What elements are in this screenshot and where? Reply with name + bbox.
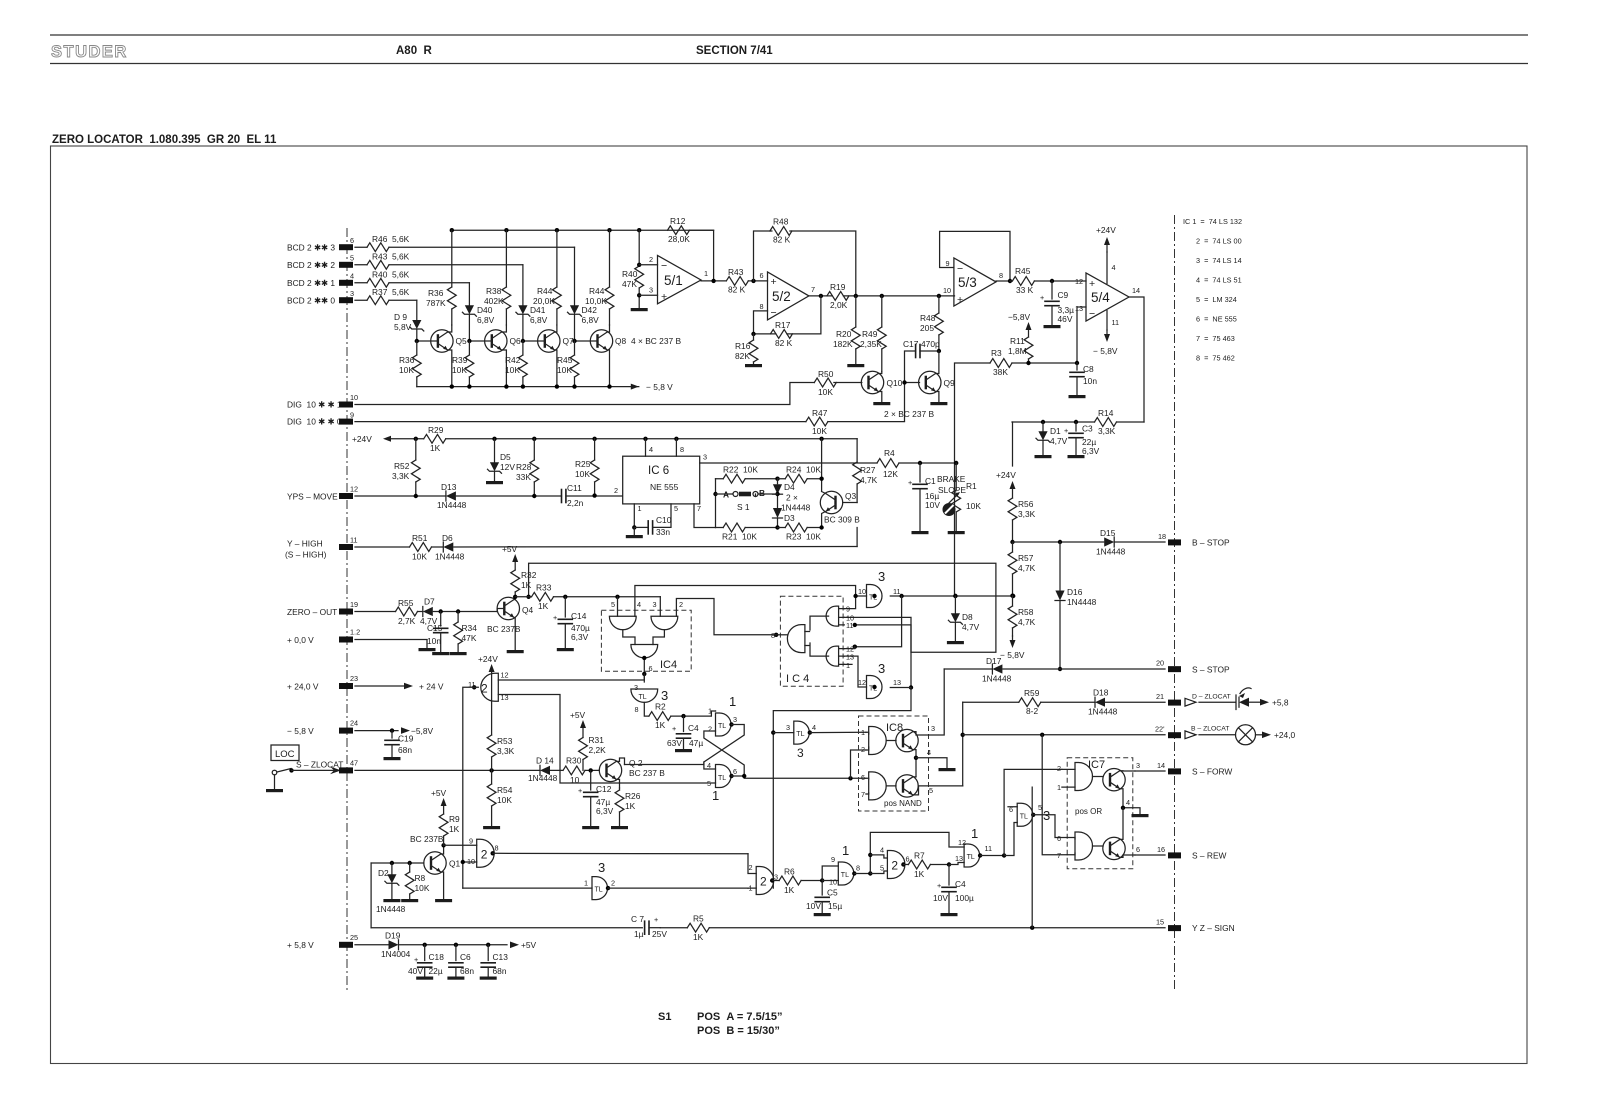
svg-text:TL: TL [967, 854, 975, 861]
svg-text:POS A = 7.5/15”: POS A = 7.5/15” [697, 1011, 783, 1023]
svg-text:+24V: +24V [1096, 225, 1116, 235]
svg-text:R54: R54 [497, 785, 513, 795]
svg-text:TL: TL [718, 775, 726, 782]
resistor R44 20,0K (collector Q7) [556, 230, 558, 325]
wire [355, 246, 575, 248]
svg-text:D5: D5 [500, 452, 511, 462]
svg-text:R16: R16 [735, 341, 751, 351]
svg-text:IC 6: IC 6 [648, 465, 669, 477]
resistor R8 10K [409, 863, 411, 899]
resistor R25 10K [594, 439, 596, 496]
gate IC8 H2 [869, 772, 887, 800]
svg-text:+24V: +24V [996, 470, 1016, 480]
ground [631, 308, 648, 311]
svg-text:10K: 10K [415, 883, 430, 893]
svg-text:LOC: LOC [275, 749, 295, 760]
svg-text:+: + [672, 724, 676, 733]
gate IC4 OR (left facing) [787, 625, 805, 653]
svg-text:4: 4 [1126, 798, 1130, 807]
svg-text:12: 12 [501, 671, 509, 680]
svg-text:1K: 1K [914, 869, 925, 879]
svg-text:S1: S1 [658, 1011, 671, 1023]
svg-text:2: 2 [481, 681, 488, 695]
svg-text:C14: C14 [571, 611, 587, 621]
zener D2 1N4448 [391, 863, 393, 874]
svg-text:2: 2 [1057, 764, 1061, 773]
svg-text:3: 3 [878, 661, 885, 676]
transistor T1 [896, 729, 918, 751]
svg-text:+5V: +5V [502, 544, 518, 554]
svg-text:STUDER: STUDER [51, 43, 128, 61]
resistor R21 10K [716, 527, 778, 529]
svg-text:15µ: 15µ [828, 901, 842, 911]
op-amp 5/2 [768, 272, 809, 320]
svg-text:R28: R28 [516, 462, 532, 472]
svg-text:3: 3 [878, 569, 885, 584]
svg-text:R29: R29 [428, 425, 444, 435]
capacitor C1 16u 10V [919, 463, 921, 482]
svg-text:8: 8 [856, 864, 860, 873]
svg-text:68n: 68n [460, 966, 474, 976]
header rule top [50, 34, 1528, 36]
svg-text:1K: 1K [430, 443, 441, 453]
svg-text:8: 8 [760, 302, 764, 311]
svg-text:2,35K: 2,35K [860, 339, 882, 349]
capacitor C17 470p [937, 349, 941, 353]
svg-text:R37 5,6K: R37 5,6K [372, 287, 410, 297]
svg-text:2 × BC 237 B: 2 × BC 237 B [884, 409, 934, 419]
resistor R19 2,0K [827, 292, 849, 301]
svg-text:C5: C5 [827, 888, 838, 898]
transistor K1 [1103, 769, 1125, 791]
svg-text:1N4448: 1N4448 [376, 904, 406, 914]
resistor R20 182K [855, 296, 857, 364]
svg-text:R40: R40 [622, 269, 638, 279]
svg-text:3: 3 [634, 683, 638, 692]
svg-text:D13: D13 [441, 482, 457, 492]
wire G_a inputs [748, 854, 756, 888]
op-amp 5/1 [658, 256, 702, 304]
svg-text:5 = LM 324: 5 = LM 324 [1196, 295, 1237, 304]
svg-text:1: 1 [638, 504, 642, 513]
transistor Q10 [861, 371, 883, 393]
svg-text:R20: R20 [836, 329, 852, 339]
svg-text:19: 19 [350, 600, 358, 609]
svg-text:C 7: C 7 [631, 914, 644, 924]
capacitor C18 22u 40V [424, 945, 426, 961]
diode D6 1N4448 [443, 542, 453, 552]
svg-text:11: 11 [350, 536, 358, 545]
svg-text:1K: 1K [655, 720, 666, 730]
svg-text:1N4448: 1N4448 [982, 674, 1012, 684]
zener D8 4,7V [953, 594, 957, 598]
svg-text:470p: 470p [921, 339, 940, 349]
svg-text:3: 3 [786, 723, 790, 732]
pin 1 stub and ground [633, 504, 635, 528]
svg-text:TL: TL [595, 887, 603, 894]
svg-text:10K: 10K [452, 365, 467, 375]
svg-text:1N4448: 1N4448 [528, 773, 558, 783]
svg-text:3,3K: 3,3K [392, 471, 410, 481]
svg-text:D15: D15 [1100, 528, 1116, 538]
op-amp 5/4 [1086, 273, 1129, 321]
svg-text:46V: 46V [1058, 314, 1073, 324]
capacitor C3 22u 6,3V [1075, 422, 1077, 431]
ground [1035, 455, 1052, 458]
gate TL3c (IC3) [592, 877, 608, 900]
svg-text:R36: R36 [399, 355, 415, 365]
svg-text:47µ: 47µ [689, 738, 703, 748]
wire S-REW row [1135, 854, 1165, 856]
svg-text:+: + [578, 786, 582, 795]
svg-text:25: 25 [350, 933, 358, 942]
pad 15 YZ-SIGN [1168, 925, 1181, 931]
gate IC2b (9/10 -> 8) [477, 839, 495, 867]
svg-text:+: + [937, 881, 941, 890]
svg-text:2,0K: 2,0K [830, 300, 848, 310]
svg-text:R5: R5 [693, 914, 704, 924]
IC4 dashed box (upper) [601, 610, 691, 671]
svg-text:4,7V: 4,7V [1050, 436, 1068, 446]
svg-text:1N4448: 1N4448 [437, 500, 467, 510]
svg-text:NE 555: NE 555 [650, 482, 679, 492]
svg-text:1K: 1K [693, 932, 704, 942]
resistor R50 10K [814, 378, 836, 387]
capacitor C15 10n [440, 612, 442, 627]
svg-text:−: − [957, 263, 963, 275]
svg-text:S – REW: S – REW [1192, 851, 1227, 861]
diode D15 1N4448 [1104, 537, 1114, 547]
svg-text:R40 5,6K: R40 5,6K [372, 270, 410, 280]
wire +24V pin 4 [1106, 252, 1108, 284]
svg-text:R43 5,6K: R43 5,6K [372, 252, 410, 262]
ground [1068, 455, 1085, 458]
ground [486, 481, 503, 484]
gate IC4 B (down arch) [651, 616, 678, 629]
svg-text:D18: D18 [1093, 688, 1109, 698]
wire +24V stub near C3 [1012, 422, 1014, 466]
second IC4 dashed box [780, 596, 843, 686]
switch S1 A/B [716, 493, 734, 495]
ground [1044, 325, 1061, 328]
svg-text:82 K: 82 K [773, 235, 791, 245]
svg-text:10K: 10K [818, 387, 833, 397]
resistor R42 10K (base Q7) [521, 339, 525, 343]
svg-text:D40: D40 [477, 305, 493, 315]
wire flipflop cross coupling [704, 711, 744, 776]
svg-text:6: 6 [906, 855, 910, 864]
pad 22 B-ZLOCAT [1168, 732, 1181, 738]
svg-text:20,0K: 20,0K [533, 296, 555, 306]
resistor R48c 205 [938, 296, 940, 351]
wire feedback loop over G_c [870, 832, 964, 873]
wire IC8 pin2 riser [851, 750, 866, 778]
svg-text:1N4448: 1N4448 [1096, 547, 1126, 557]
svg-text:+: + [1089, 278, 1095, 290]
svg-text:3,3K: 3,3K [1018, 509, 1036, 519]
svg-text:BRAKE: BRAKE [937, 474, 966, 484]
wire IC2b inputs [444, 845, 477, 862]
svg-text:R30: R30 [566, 756, 582, 766]
svg-text:2: 2 [679, 600, 683, 609]
svg-text:Q9: Q9 [944, 378, 956, 388]
ground [1069, 395, 1086, 398]
svg-text:Q6: Q6 [510, 336, 522, 346]
gate G_a (IC2) [756, 867, 774, 895]
svg-text:IC 1 = 74 LS 132: IC 1 = 74 LS 132 [1183, 217, 1242, 226]
svg-text:R46 5,6K: R46 5,6K [372, 234, 410, 244]
svg-text:2 = 74 LS 00: 2 = 74 LS 00 [1196, 237, 1242, 246]
svg-text:10: 10 [943, 286, 951, 295]
svg-text:8 = 75 462: 8 = 75 462 [1196, 354, 1235, 363]
svg-text:Q10: Q10 [887, 378, 903, 388]
svg-text:3: 3 [649, 286, 653, 295]
svg-text:5/1: 5/1 [664, 273, 683, 288]
svg-text:4: 4 [812, 723, 816, 732]
svg-text:205: 205 [920, 323, 934, 333]
svg-text:1: 1 [842, 843, 849, 858]
svg-text:63V: 63V [667, 738, 682, 748]
resistor R59 8,2 [963, 701, 1095, 703]
svg-text:2,2n: 2,2n [567, 498, 584, 508]
zener D1 4,7V [1042, 422, 1044, 431]
wire minus input [637, 263, 641, 267]
svg-text:R52: R52 [394, 461, 410, 471]
pad 14 S-FORW [1168, 768, 1181, 774]
svg-text:+ 24,0 V: + 24,0 V [287, 682, 319, 692]
svg-text:−: − [1089, 308, 1095, 320]
svg-text:8: 8 [999, 271, 1003, 280]
resistor R2 1K [649, 712, 671, 721]
resistor R29 1K [424, 434, 446, 443]
lamp symbol [1199, 734, 1236, 736]
svg-text:2,7K: 2,7K [398, 616, 416, 626]
svg-text:3: 3 [350, 289, 354, 298]
svg-text:68n: 68n [493, 966, 507, 976]
svg-text:C11: C11 [567, 483, 582, 493]
transistor Q3 BC309B pnp [820, 491, 842, 513]
svg-text:R43: R43 [728, 267, 744, 277]
wire IC7 pin7 from B-ZLOCAT [1042, 735, 1067, 855]
svg-text:BC 237 B: BC 237 B [629, 768, 665, 778]
svg-text:R27: R27 [860, 465, 876, 475]
resistor R40 47K [638, 230, 640, 308]
svg-text:R51: R51 [412, 533, 428, 543]
zener D40 [468, 283, 470, 305]
svg-text:−5,8V: −5,8V [411, 726, 434, 736]
svg-text:+5V: +5V [431, 788, 447, 798]
resistor R3 38K [955, 363, 1078, 596]
svg-text:C12: C12 [596, 784, 612, 794]
svg-text:10K: 10K [557, 365, 572, 375]
svg-text:2 ×: 2 × [786, 493, 798, 503]
svg-text:R24 10K: R24 10K [786, 465, 821, 475]
gate IC7 J1 [1075, 763, 1093, 791]
svg-text:R36: R36 [428, 288, 444, 298]
svg-text:3: 3 [733, 715, 737, 724]
svg-text:+5V: +5V [570, 710, 586, 720]
svg-text:Q4: Q4 [522, 605, 534, 615]
gate IC4 C (down arch) [631, 645, 658, 658]
svg-text:D41: D41 [530, 305, 546, 315]
svg-text:Y – HIGH: Y – HIGH [287, 539, 323, 549]
gate TL3b (IC3) [1017, 803, 1032, 826]
svg-text:+5,8: +5,8 [1272, 698, 1289, 708]
svg-text:C3: C3 [1082, 424, 1093, 434]
svg-text:R25: R25 [575, 459, 591, 469]
svg-text:R47: R47 [812, 408, 828, 418]
capacitor C8 10n [1076, 363, 1078, 370]
resistor R4 12K [877, 459, 899, 468]
svg-text:1: 1 [1057, 783, 1061, 792]
svg-text:R9: R9 [449, 814, 460, 824]
svg-text:S – STOP: S – STOP [1192, 665, 1230, 675]
svg-text:R2: R2 [655, 702, 666, 712]
pad 20 S-STOP [1168, 666, 1181, 672]
svg-text:S – ZLOCAT: S – ZLOCAT [296, 760, 343, 770]
svg-text:2: 2 [481, 847, 488, 861]
wire S-FORW row [1135, 770, 1165, 772]
ground [873, 402, 890, 405]
svg-text:+24,0: +24,0 [1274, 730, 1296, 740]
resistor R56 3,3K [1010, 481, 1016, 489]
svg-text:+: + [908, 478, 912, 487]
wire pin13/1 stubs [844, 647, 866, 687]
node collector bus [452, 229, 714, 231]
svg-text:5/2: 5/2 [772, 289, 791, 304]
svg-text:12: 12 [1075, 277, 1083, 286]
svg-text:C9: C9 [1058, 290, 1069, 300]
svg-text:TL: TL [718, 723, 726, 730]
svg-text:R45: R45 [557, 355, 573, 365]
svg-text:A80 R: A80 R [396, 45, 432, 57]
transistor Q4 [497, 597, 519, 619]
resistor R58 4,7K [1012, 596, 1014, 636]
svg-text:10n: 10n [427, 636, 441, 646]
svg-text:6,8V: 6,8V [582, 315, 600, 325]
svg-text:BC 237B: BC 237B [410, 834, 444, 844]
resistor R22 10K [716, 478, 778, 480]
svg-text:5: 5 [674, 504, 678, 513]
svg-text:10K: 10K [399, 365, 414, 375]
svg-text:D3: D3 [784, 513, 795, 523]
resistor R31 2,2K [582, 728, 584, 770]
svg-text:1: 1 [846, 661, 850, 670]
wire 5/4 output down [1129, 297, 1144, 422]
svg-text:−: − [661, 260, 667, 272]
resistor R34 47K [457, 612, 459, 653]
svg-text:R26: R26 [625, 791, 641, 801]
svg-text:BCD 2 ✱✱ 0: BCD 2 ✱✱ 0 [287, 296, 335, 306]
svg-text:6,3V: 6,3V [571, 632, 589, 642]
capacitor C6 68n [455, 945, 457, 961]
svg-text:2: 2 [891, 859, 898, 873]
svg-text:R48: R48 [773, 217, 789, 227]
svg-text:C4: C4 [955, 879, 966, 889]
svg-text:−: − [771, 307, 777, 319]
resistor R37 [367, 296, 389, 305]
svg-text:2: 2 [708, 725, 712, 734]
svg-text:D7: D7 [424, 597, 435, 607]
svg-text:1: 1 [861, 728, 865, 737]
svg-text:33 K: 33 K [1016, 285, 1034, 295]
svg-text:5: 5 [350, 254, 354, 263]
svg-text:12: 12 [350, 485, 358, 494]
header rule bottom [50, 63, 1528, 65]
svg-text:7 = 75 463: 7 = 75 463 [1196, 334, 1235, 343]
svg-text:BC 309 B: BC 309 B [824, 515, 860, 525]
capacitor C4b 100u 10V [948, 865, 950, 886]
svg-text:8: 8 [680, 445, 684, 454]
svg-text:12: 12 [958, 838, 966, 847]
svg-text:R56: R56 [1018, 499, 1034, 509]
svg-text:R42: R42 [505, 355, 521, 365]
svg-text:82K: 82K [735, 351, 750, 361]
svg-text:3: 3 [797, 746, 804, 760]
resistor R5 1K [687, 923, 709, 932]
svg-text:ZERO LOCATOR 1.080.395 GR 20: ZERO LOCATOR 1.080.395 GR 20 EL 11 [52, 134, 277, 146]
resistor R55 2,7K [396, 607, 418, 616]
svg-text:+: + [654, 915, 658, 924]
svg-text:−5,8V: −5,8V [1008, 312, 1031, 322]
svg-text:+: + [1064, 426, 1068, 435]
svg-text:7: 7 [1057, 851, 1061, 860]
svg-text:47: 47 [350, 759, 358, 768]
svg-text:R1: R1 [966, 481, 977, 491]
svg-text:1N4448: 1N4448 [1088, 707, 1118, 717]
wire S1 column [715, 479, 717, 528]
svg-text:D 9: D 9 [394, 312, 407, 322]
svg-text:3: 3 [1136, 761, 1140, 770]
svg-text:82 K: 82 K [775, 338, 793, 348]
svg-text:IC4: IC4 [660, 659, 677, 671]
svg-text:11: 11 [893, 587, 901, 596]
svg-text:D1: D1 [1050, 426, 1061, 436]
svg-text:1: 1 [712, 788, 719, 803]
resistor R46 [367, 243, 389, 252]
svg-text:6: 6 [649, 664, 653, 673]
svg-text:TL: TL [796, 731, 804, 738]
svg-text:2: 2 [749, 863, 753, 872]
wire G_d in [949, 863, 964, 865]
svg-text:D17: D17 [986, 656, 1002, 666]
svg-text:6: 6 [760, 271, 764, 280]
svg-text:10K: 10K [412, 552, 427, 562]
capacitor C4a 47u 63V [683, 716, 685, 731]
gate TL3a (IC3 schmitt, down arch) [631, 689, 658, 702]
svg-text:1.2: 1.2 [350, 628, 360, 637]
svg-text:D16: D16 [1067, 587, 1083, 597]
svg-text:24: 24 [350, 719, 358, 728]
svg-text:B – STOP: B – STOP [1192, 538, 1230, 548]
capacitor C5 15u 10V [821, 881, 823, 896]
svg-text:R38: R38 [486, 286, 502, 296]
wire TL3a out to R2 [644, 702, 649, 716]
svg-text:R11: R11 [1010, 336, 1025, 346]
svg-text:3: 3 [931, 724, 935, 733]
svg-text:D6: D6 [442, 533, 453, 543]
svg-text:4: 4 [880, 846, 884, 855]
svg-text:787K: 787K [426, 298, 446, 308]
svg-text:10n: 10n [1083, 376, 1097, 386]
svg-text:8: 8 [635, 705, 639, 714]
svg-text:− 5,8V: − 5,8V [1000, 650, 1025, 660]
resistor R6 1K [772, 880, 822, 882]
resistor R39 10K (base Q6) [467, 339, 471, 343]
svg-text:+ 24 V: + 24 V [419, 682, 444, 692]
svg-text:1N4448: 1N4448 [1067, 597, 1097, 607]
wire G_d out riser to IC7 pin2 [980, 855, 1004, 857]
